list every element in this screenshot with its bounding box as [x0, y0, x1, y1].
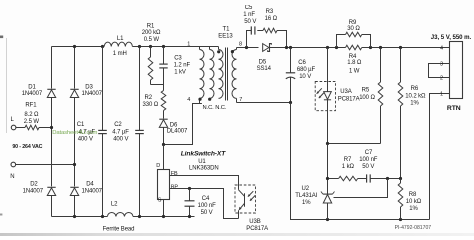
wire bridge right leg [74, 47, 76, 89]
svg-text:8.2 Ω: 8.2 Ω [24, 112, 39, 118]
wire primary return rail [52, 216, 108, 218]
resistor R9 30ohm [337, 35, 346, 48]
svg-text:U1: U1 [198, 159, 206, 165]
svg-text:D1: D1 [28, 85, 36, 91]
svg-text:S: S [158, 197, 162, 203]
svg-text:LinkSwitch-XT: LinkSwitch-XT [181, 150, 227, 157]
svg-text:T1: T1 [223, 26, 231, 32]
svg-text:DL4007: DL4007 [167, 129, 188, 135]
svg-text:EE13: EE13 [218, 33, 233, 39]
T1 polarity dots [217, 50, 220, 53]
wire +DC top rail [52, 46, 105, 48]
resistor R1 200k 0.5W [150, 47, 152, 58]
wire ref branch [334, 179, 388, 198]
svg-text:1 W: 1 W [349, 69, 360, 75]
svg-text:C3: C3 [174, 55, 182, 61]
svg-text:1 kΩ: 1 kΩ [342, 164, 355, 170]
svg-text:R5: R5 [362, 88, 370, 94]
wire secondary return down [291, 103, 430, 220]
wire drain node [164, 104, 202, 145]
wire N to bridge [16, 164, 75, 166]
bottom scan shadow [0, 233, 474, 236]
svg-text:400 V: 400 V [113, 137, 128, 143]
svg-text:1N4007: 1N4007 [82, 188, 103, 194]
svg-text:4.7 µF: 4.7 µF [112, 130, 129, 136]
node L-bridge [50, 126, 53, 129]
svg-text:C5: C5 [245, 5, 253, 11]
svg-text:D5: D5 [259, 59, 267, 65]
resistor R8 10k 1% [400, 179, 402, 184]
svg-text:PC817A: PC817A [246, 226, 268, 232]
svg-text:1: 1 [187, 42, 190, 48]
svg-text:C6: C6 [298, 60, 306, 66]
svg-text:C4: C4 [202, 196, 210, 202]
svg-text:PC817A: PC817A [338, 96, 360, 102]
node N-bridge [73, 163, 76, 166]
svg-text:BP: BP [171, 184, 179, 190]
svg-text:1.2 nF: 1.2 nF [174, 62, 191, 68]
diode D4 1N4007 [70, 186, 78, 188]
capacitor C6 680uF 10V electrolytic [290, 48, 292, 73]
svg-text:8: 8 [239, 42, 242, 48]
diode D1 1N4007 [47, 88, 55, 90]
svg-text:1%: 1% [409, 206, 418, 212]
svg-text:50 V: 50 V [244, 19, 256, 25]
svg-text:R7: R7 [344, 157, 352, 163]
svg-text:1N4007: 1N4007 [22, 91, 43, 97]
svg-text:U2: U2 [302, 186, 310, 192]
svg-text:RTN: RTN [447, 105, 461, 112]
svg-text:R6: R6 [411, 86, 419, 92]
capacitor C2 4.7uF 400V [139, 47, 141, 131]
edge specks [0, 36, 3, 39]
diode D5 SS14 schottky [268, 44, 272, 52]
svg-text:R4: R4 [349, 54, 357, 60]
svg-text:D2: D2 [30, 182, 38, 188]
svg-text:1: 1 [440, 92, 443, 98]
resistor R4 1.8ohm 1W [346, 45, 362, 50]
svg-text:2: 2 [440, 75, 443, 81]
svg-text:D3: D3 [85, 85, 93, 91]
svg-text:D4: D4 [86, 182, 94, 188]
resistor R5 100ohm [380, 48, 382, 83]
T1 secondary winding pin8-pin7 [236, 48, 238, 50]
svg-text:R1: R1 [147, 23, 155, 29]
scan artifact line [6, 38, 8, 133]
wire BP line [170, 189, 239, 219]
svg-text:1 nF: 1 nF [243, 12, 255, 18]
opto U3B PC817A phototransistor [235, 185, 256, 213]
resistor RF1 fusible 8.2ohm 2.5W [16, 127, 25, 129]
svg-text:1 kV: 1 kV [174, 69, 186, 75]
wire comp line [327, 144, 329, 195]
svg-text:U3A: U3A [340, 89, 351, 95]
resistor R7 1k [339, 176, 358, 181]
svg-text:1N4007: 1N4007 [23, 188, 44, 194]
capacitor C7 100nF 50V [366, 174, 368, 182]
svg-text:16 Ω: 16 Ω [265, 16, 278, 22]
wire pin8 to D5 [237, 47, 259, 49]
svg-text:0.5 W: 0.5 W [144, 37, 160, 43]
inductor L1 1mH [104, 42, 132, 46]
svg-text:1 mH: 1 mH [113, 51, 127, 57]
T1 primary winding pin1-pin4 [199, 47, 201, 50]
svg-text:R8: R8 [409, 192, 417, 198]
wire +5V rail [270, 47, 346, 49]
svg-text:100 nF: 100 nF [359, 157, 378, 163]
diode D3 1N4007 [70, 88, 78, 90]
svg-text:C1: C1 [77, 122, 85, 128]
svg-text:1%: 1% [410, 101, 419, 107]
svg-text:330 Ω: 330 Ω [143, 102, 159, 108]
resistor R2 330ohm [161, 91, 166, 111]
svg-text:50 V: 50 V [201, 210, 213, 216]
resistor R6 10.2k 1% [400, 48, 402, 83]
svg-text:PI-4792-081707: PI-4792-081707 [395, 225, 432, 231]
svg-text:LNK363DN: LNK363DN [189, 166, 219, 172]
svg-text:U3B: U3B [249, 219, 260, 225]
svg-text:TL431AI: TL431AI [295, 193, 317, 199]
svg-text:100 nF: 100 nF [198, 203, 217, 209]
svg-text:200 kΩ: 200 kΩ [142, 30, 161, 36]
svg-text:D6: D6 [170, 122, 178, 128]
resistor R3 16ohm [263, 28, 277, 33]
wire LED cathode to R5 [328, 143, 381, 145]
J3 jumper pins 2-3 [429, 64, 450, 78]
svg-text:R3: R3 [266, 9, 274, 15]
shunt reg U2 TL431AI [323, 193, 333, 195]
wire clamp bottom bracket [151, 84, 164, 86]
svg-text:2.5 W: 2.5 W [24, 119, 40, 125]
svg-text:C2: C2 [114, 122, 122, 128]
svg-text:10 V: 10 V [299, 74, 311, 80]
svg-text:3: 3 [440, 61, 443, 67]
svg-text:N: N [10, 174, 14, 180]
wire pin7 return [237, 102, 291, 104]
wire J3 pin1 RTN [430, 94, 450, 220]
svg-text:90 - 264 VAC: 90 - 264 VAC [12, 144, 42, 150]
svg-text:C7: C7 [365, 150, 373, 156]
diode D2 1N4007 [47, 186, 55, 188]
capacitor C5 1nF 50V [250, 26, 252, 34]
svg-text:680 µF: 680 µF [297, 67, 316, 73]
svg-text:1%: 1% [302, 200, 311, 206]
svg-text:N.C. N.C.: N.C. N.C. [203, 105, 227, 111]
svg-text:Datasheet4U.com: Datasheet4U.com [52, 130, 97, 136]
inductor L2 ferrite bead [107, 213, 133, 217]
svg-text:R2: R2 [145, 95, 153, 101]
capacitor C4 100nF 50V [189, 189, 191, 201]
svg-text:J3, 5 V, 550 m.: J3, 5 V, 550 m. [431, 34, 472, 41]
svg-text:1.8 Ω: 1.8 Ω [347, 60, 362, 66]
wire bridge left leg [51, 47, 53, 89]
capacitor C3 1.2nF 1kV [163, 47, 165, 65]
svg-text:R9: R9 [349, 20, 357, 26]
capacitor C1 4.7uF 400V [102, 47, 104, 131]
svg-text:1N4007: 1N4007 [82, 91, 103, 97]
svg-text:SS14: SS14 [257, 66, 272, 72]
svg-text:4: 4 [187, 97, 190, 103]
terminal L [11, 125, 16, 130]
T1 core [225, 48, 227, 101]
svg-text:10.2 kΩ: 10.2 kΩ [405, 93, 426, 99]
svg-text:L1: L1 [117, 36, 124, 42]
svg-text:D: D [156, 163, 160, 169]
svg-text:50 V: 50 V [362, 164, 374, 170]
diode D6 DL4007 [159, 118, 167, 120]
svg-text:Ferrite Bead: Ferrite Bead [103, 226, 135, 232]
svg-text:L2: L2 [111, 201, 118, 207]
wire FB to opto collector [170, 176, 239, 190]
svg-text:RF1: RF1 [25, 102, 37, 108]
wire snubber loop [247, 31, 252, 48]
opto U3A PC817A LED [315, 82, 335, 111]
svg-text:10 kΩ: 10 kΩ [406, 199, 422, 205]
svg-text:4: 4 [440, 45, 443, 51]
svg-text:100 Ω: 100 Ω [359, 95, 375, 101]
svg-text:30 Ω: 30 Ω [347, 26, 360, 32]
terminal N [11, 162, 16, 167]
svg-text:400 V: 400 V [78, 137, 93, 143]
